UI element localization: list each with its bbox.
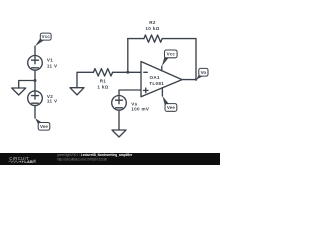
wire Vs bottom to ground G3: [118, 110, 120, 130]
wire R1 right to op-amp inverting input: [113, 71, 141, 73]
svg-text:greenlight2001 / Lecture08_Non: greenlight2001 / Lecture08_Noninverting_…: [57, 153, 133, 157]
svg-text:11 V: 11 V: [47, 99, 58, 104]
svg-text:http://circuitlab.com/c/9766b7: http://circuitlab.com/c/9766b722c9b: [57, 158, 107, 162]
op-amp plus marker: [144, 88, 149, 93]
output node junction dot: [195, 78, 197, 80]
net flag Vcc at op-amp: [162, 50, 177, 66]
svg-text:OA1: OA1: [150, 75, 161, 80]
voltage source Vs: [112, 96, 127, 111]
label R1 value: [97, 78, 108, 89]
wire Vcc flag to V1 top: [34, 46, 36, 55]
wire V1 bottom to junction: [34, 70, 36, 80]
svg-text:LAB: LAB: [24, 159, 33, 164]
label V2 value: [47, 94, 58, 104]
op-amp minus marker: [144, 71, 148, 73]
svg-text:Vcc: Vcc: [42, 34, 51, 39]
voltage source V2: [28, 91, 43, 106]
svg-text:Vcc: Vcc: [167, 52, 176, 57]
wire V2 bottom to Vee flag: [34, 106, 36, 119]
svg-text:V1: V1: [47, 58, 53, 63]
wire op-amp output: [182, 79, 196, 81]
svg-text:R2: R2: [149, 20, 156, 25]
wire feedback vertical from node A up: [127, 39, 129, 73]
net flag Vee at op-amp: [162, 96, 176, 111]
wire feedback top right segment down to output: [162, 39, 196, 80]
wire non-inverting input to Vs top: [119, 90, 141, 96]
net flag Vcc at V1: [35, 33, 51, 46]
svg-text:10 kΩ: 10 kΩ: [145, 26, 159, 31]
op-amp U1 triangle: [141, 62, 182, 97]
ground G2: [70, 88, 84, 95]
op-amp Vcc power stub: [161, 66, 163, 70]
svg-text:Vee: Vee: [167, 105, 175, 110]
net flag Vee at V2: [35, 118, 50, 130]
node A junction dot: [126, 71, 129, 74]
label Vs value: [131, 102, 150, 112]
svg-text:R1: R1: [100, 78, 107, 83]
label V1 value: [47, 58, 58, 69]
svg-text:1 kΩ: 1 kΩ: [97, 84, 108, 89]
svg-text:Vo: Vo: [201, 70, 207, 75]
voltage source V1: [28, 56, 43, 71]
node between V1 and V2 junction dot: [34, 79, 37, 82]
CircuitLab logo: [8, 156, 35, 164]
wire R1 left lead and drop to ground G2: [77, 72, 93, 87]
label R2 value: [145, 20, 159, 31]
resistor R1: [93, 69, 112, 76]
watermark bar: [0, 153, 220, 165]
wire junction to V2 top: [34, 81, 36, 91]
svg-text:TL081: TL081: [149, 81, 164, 86]
op-amp Vee power stub: [161, 88, 163, 96]
resistor R2: [144, 35, 162, 42]
wire junction to ground G1: [19, 81, 35, 89]
ground G1: [12, 88, 26, 95]
ground G3: [112, 130, 126, 137]
label OA1 TL081: [149, 75, 164, 86]
svg-text:11 V: 11 V: [47, 63, 58, 68]
net flag Vo at output: [196, 68, 208, 79]
svg-text:Vee: Vee: [40, 124, 48, 129]
svg-text:100 mV: 100 mV: [131, 106, 150, 111]
wire feedback top left segment: [128, 38, 144, 40]
